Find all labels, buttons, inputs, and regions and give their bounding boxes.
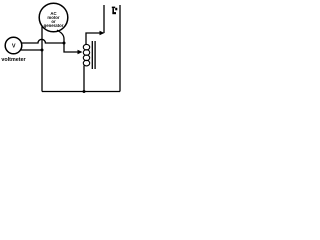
node: junction dot voltmeter-bottom to left lead: [41, 49, 44, 52]
label: output terminals annotation (tiny): [112, 7, 117, 15]
svg-text:V: V: [12, 44, 16, 50]
label: AC motor or generator: [44, 11, 64, 28]
node: junction dot generator right lead / tap wire: [63, 42, 66, 45]
arrowhead: onto output terminal wire: [100, 31, 105, 36]
voltmeter M1: [5, 37, 22, 54]
AC motor/generator G1: [39, 3, 68, 32]
wire: bottom rail: [42, 91, 120, 93]
wire: generator right lead curve: [57, 30, 64, 43]
wire: winding top lead up and right: [86, 33, 101, 45]
node: junction dot winding bottom to bottom rail: [83, 90, 86, 93]
arrowhead: tap arrow onto winding: [78, 50, 83, 55]
wire: voltmeter bottom wire: [21, 49, 42, 51]
inductor L1 winding (autotransformer coil, 4 loops): [83, 44, 89, 66]
wire: generator left lead down: [41, 27, 43, 92]
wire: voltmeter top wire with hop over left lead: [21, 39, 64, 43]
svg-text:voltmeter: voltmeter: [1, 57, 26, 63]
wire: winding bottom lead down: [83, 66, 85, 92]
wire: output left terminal up: [103, 5, 105, 33]
wire: right rail: [119, 5, 121, 92]
transformer core (two bars): [91, 41, 93, 69]
wire: tap wire down and right: [64, 43, 79, 52]
svg-text:generator: generator: [44, 23, 64, 28]
